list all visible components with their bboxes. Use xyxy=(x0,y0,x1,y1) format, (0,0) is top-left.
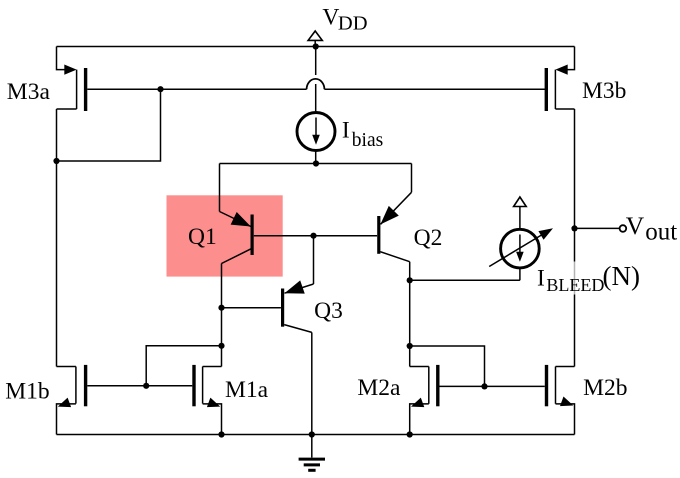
wire gate rail M3a to hop xyxy=(87,88,306,90)
wire gate rail hop to M3b xyxy=(324,88,546,90)
svg-text:M3b: M3b xyxy=(582,78,626,104)
VDD supply symbol xyxy=(308,31,322,47)
svg-text:Q3: Q3 xyxy=(314,298,343,324)
transistor M3b (PMOS) xyxy=(546,47,574,112)
junction dot Ibias output xyxy=(313,160,319,166)
wire Q1 collector run xyxy=(221,264,223,367)
wire emitter rail xyxy=(220,163,412,165)
junction dot base rail Q3 tap xyxy=(310,233,316,239)
svg-text:M1a: M1a xyxy=(225,377,269,403)
svg-text:M2a: M2a xyxy=(357,375,401,401)
wire ground stem xyxy=(311,435,313,458)
transistor M2a (NMOS) xyxy=(409,365,438,435)
svg-text:Q1: Q1 xyxy=(188,224,217,250)
transistor M1a (NMOS mirrored) xyxy=(194,365,222,435)
junction dot bottom rail M1a xyxy=(218,431,224,437)
junction dot M2a diode link xyxy=(407,343,413,349)
junction dot Q3 base xyxy=(218,305,224,311)
svg-text:M3a: M3a xyxy=(7,79,51,105)
junction dot bottom rail ground xyxy=(309,431,315,437)
svg-text:I: I xyxy=(342,118,350,144)
current source IBLEED (adjustable) xyxy=(489,197,555,280)
wire bottom ground rail xyxy=(57,434,575,436)
wire M3a gate-drain diode link xyxy=(57,89,161,161)
svg-text:I: I xyxy=(537,265,545,291)
highlight box around Q1 xyxy=(167,195,283,276)
wire Q3 emitter drop xyxy=(313,236,315,284)
svg-text:(N): (N) xyxy=(603,261,640,291)
wire Q1 emitter drop xyxy=(219,164,221,212)
wire VDD stem upper xyxy=(315,47,317,76)
junction dot bleed tap xyxy=(407,277,413,283)
svg-text:V: V xyxy=(322,4,339,30)
wire Q2 collector run xyxy=(409,262,411,367)
wire M2 gate line xyxy=(440,385,545,387)
svg-text:bias: bias xyxy=(352,130,383,151)
svg-text:DD: DD xyxy=(338,13,368,35)
junction dot VDD rail xyxy=(313,43,319,49)
svg-text:Q2: Q2 xyxy=(414,225,443,251)
transistor M3a (PMOS) xyxy=(57,47,86,112)
wire hop over VDD stem xyxy=(307,79,325,89)
wire Q3 collector run xyxy=(311,332,313,434)
ground symbol xyxy=(299,459,325,470)
svg-text:V: V xyxy=(626,211,645,240)
svg-text:M1b: M1b xyxy=(5,379,49,405)
junction dot bottom rail M2a xyxy=(407,431,413,437)
current source Ibias xyxy=(297,113,335,151)
wire bleed tap xyxy=(410,279,520,281)
wire VDD stem lower xyxy=(315,84,317,113)
svg-text:M2b: M2b xyxy=(583,375,627,401)
junction dot Vout tap xyxy=(571,225,577,231)
wire left rail (M3a drain to M1b drain) xyxy=(56,109,58,367)
junction dot M1a diode link xyxy=(218,343,224,349)
transistor M2b (NMOS mirrored) xyxy=(547,365,576,435)
wire M1 gate line xyxy=(87,385,192,387)
wire Vout tap xyxy=(575,227,620,229)
transistor Q1 (BJT) xyxy=(220,212,378,264)
wire Q2 emitter drop xyxy=(411,164,413,193)
label backing over right rail xyxy=(538,262,641,295)
transistor Q3 (BJT mirrored) xyxy=(222,280,313,332)
svg-text:BLEED: BLEED xyxy=(546,275,604,295)
junction dot left rail diode link xyxy=(53,158,59,164)
wire M1a gate-drain diode link xyxy=(146,346,221,386)
junction dot M3a gate xyxy=(157,86,163,92)
wire top VDD rail xyxy=(57,46,575,48)
wire Ibias output xyxy=(315,150,317,163)
output terminal Vout xyxy=(620,225,627,232)
junction dot M2 gate line xyxy=(481,383,487,389)
svg-text:out: out xyxy=(645,218,677,245)
transistor Q2 (BJT mirrored) xyxy=(375,192,411,261)
transistor M1b (NMOS) xyxy=(56,365,86,435)
junction dot M1 gate line xyxy=(143,383,149,389)
wire M2a gate-drain diode link xyxy=(410,346,485,386)
wire right rail (M3b drain to M2b drain) xyxy=(574,109,576,367)
